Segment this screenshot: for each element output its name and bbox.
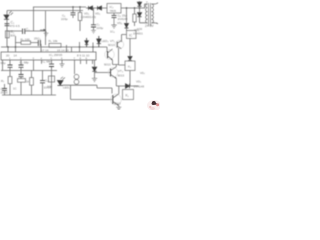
svg-text:68p: 68p: [1, 61, 6, 65]
svg-text:C₁₀: C₁₀: [45, 79, 50, 83]
stub x78: [79, 42, 81, 52]
relay contact box K1a: [125, 61, 135, 71]
ground G1: [44, 31, 49, 36]
IC2 output cap stub: [113, 13, 115, 15]
bottom right supply wire: [116, 85, 138, 87]
bus wire y70.5: [1, 70, 57, 72]
branch x21 lower: [20, 71, 22, 79]
svg-text:15 14 13: 15 14 13: [57, 49, 69, 53]
branch x10 lower resistor: [9, 71, 11, 96]
svg-text:K₁: K₁: [128, 65, 131, 69]
transistor VT1: [115, 40, 123, 48]
wire K1a down: [129, 71, 131, 87]
diode mid low: [92, 67, 96, 71]
capacitor C9 plates: [49, 64, 54, 66]
wire left column x7: [6, 11, 8, 48]
connector circles: [74, 74, 79, 79]
text labels: [1, 1, 155, 106]
resistor R2: [21, 41, 31, 44]
cap C7 branch: [93, 8, 95, 30]
VT4 emitter ground: [116, 105, 121, 110]
capacitor C7 plates: [91, 25, 96, 27]
watermark logo red: [147, 100, 161, 111]
wire diode chain: [139, 1, 141, 23]
diode VD1: [89, 6, 93, 10]
diode VD7: [126, 84, 130, 88]
wire top rail upper: [33, 7, 145, 8]
diode VD6: [125, 24, 129, 29]
capacitor C8 plates: [112, 15, 117, 17]
transformer right winding: [152, 4, 154, 23]
wire LED bottom down: [71, 85, 113, 99]
svg-text:10k: 10k: [47, 85, 52, 89]
capacitor C5 plates: [19, 65, 24, 67]
diode VD3: [137, 2, 141, 6]
mains arrows: [155, 3, 158, 24]
junction dots: [7, 6, 140, 48]
capacitor C6 plates: [71, 13, 76, 15]
cap C5e left bottom: [4, 84, 6, 95]
svg-text:9013: 9013: [108, 43, 115, 47]
bottom rail y95: [2, 94, 56, 96]
stub x93 up: [92, 43, 94, 53]
diode small x86: [85, 38, 89, 47]
transformer left winding: [146, 4, 148, 23]
ground G3: [111, 18, 116, 28]
svg-text:R₅ 10k: R₅ 10k: [49, 39, 59, 43]
ground G2: [91, 30, 96, 33]
IC1 big box: [1, 52, 96, 60]
svg-text:LED₂: LED₂: [102, 39, 110, 43]
svg-text:2×-9V: 2×-9V: [145, 24, 154, 28]
wire vertical x15: [15, 36, 17, 52]
transistor VT2 mid: [106, 47, 108, 52]
arrows at receiver: [9, 11, 13, 15]
LED1 arrows: [61, 77, 66, 80]
cap C6 stub: [72, 7, 74, 18]
box IC3: [127, 31, 137, 39]
svg-text:17 16: 17 16: [41, 49, 49, 53]
svg-text:300: 300: [10, 34, 15, 38]
diode VD in relay chain: [128, 57, 132, 61]
wire vertical x45: [45, 11, 47, 45]
svg-text:VD₇: VD₇: [136, 80, 141, 84]
stub pin20: [7, 47, 9, 52]
transformer connections: [140, 4, 156, 23]
resistor R5: [49, 43, 61, 47]
svg-text:R₇: R₇: [1, 79, 4, 83]
svg-text:470·4.5: 470·4.5: [10, 24, 21, 28]
svg-text:VD₂: VD₂: [95, 12, 101, 16]
wire to K1a: [129, 60, 131, 63]
svg-text:220μ: 220μ: [61, 17, 68, 21]
svg-text:1C: 1C: [13, 87, 17, 91]
svg-text:25/16: 25/16: [1, 91, 8, 95]
capacitor C1: [5, 24, 10, 26]
svg-text:14: 14: [14, 54, 18, 58]
photodiode D receiver: [4, 15, 9, 19]
wire mic branch y31: [7, 30, 46, 32]
arrowhead: [44, 29, 47, 31]
svg-text:C₄ 68p: C₄ 68p: [20, 61, 30, 65]
capacitor C4 plates: [8, 65, 13, 67]
svg-text:VT₃: VT₃: [118, 69, 124, 73]
transistor VT3: [108, 68, 118, 78]
svg-text:1C₉: 1C₉: [110, 30, 115, 34]
transformer T primary core: [149, 3, 151, 26]
wire down from IC3: [129, 39, 131, 57]
branch x31 resistor: [31, 71, 33, 96]
resistor R1: [5, 31, 9, 38]
VT4 collector up: [118, 86, 120, 94]
wire vertical x41: [40, 44, 42, 52]
capacitor C2: [23, 29, 25, 35]
wire R2 row: [16, 42, 39, 44]
wire right column x126: [126, 8, 128, 23]
svg-text:K₁: K₁: [126, 94, 129, 98]
ground G5: [92, 78, 97, 81]
wire top rail lower: [7, 10, 83, 12]
svg-text:9013: 9013: [118, 74, 125, 78]
svg-text:VD₆: VD₆: [117, 21, 123, 25]
stub x66: [66, 45, 68, 52]
box on x51 branch: [48, 76, 54, 82]
branch x42 cap: [42, 71, 44, 96]
relay coil box K1: [123, 90, 134, 100]
svg-text:VD₇: VD₇: [140, 71, 145, 75]
svg-text:LED₁: LED₁: [63, 86, 70, 90]
wire right column x134 resistor: [134, 8, 136, 26]
svg-text:9013: 9013: [104, 63, 111, 67]
wire arrow into gnd branch: [40, 29, 46, 31]
resistor R4 vertical: [79, 7, 81, 31]
diode VD2: [98, 6, 102, 10]
main bus wire y47: [1, 46, 107, 48]
stub x71: [71, 47, 73, 52]
diode chain wires: [94, 60, 96, 78]
diode VD8: [97, 36, 101, 47]
IC1 bottom pin stubs: [3, 60, 93, 95]
wire vertical join x33: [33, 7, 35, 31]
ground G4: [60, 64, 65, 67]
diode VD4: [137, 13, 141, 17]
wire LED top to right: [63, 85, 112, 93]
svg-text:9012: 9012: [114, 102, 121, 106]
IC2 regulator box: [107, 4, 121, 14]
svg-text:7805: 7805: [110, 9, 117, 13]
svg-text:1N4001: 1N4001: [133, 32, 143, 36]
box IC3 left pin: [119, 35, 127, 66]
LED1: [58, 81, 64, 86]
svg-text:(1N4001×3): (1N4001×3): [81, 15, 96, 19]
svg-text:1N4148: 1N4148: [134, 85, 145, 89]
svg-text:220μ: 220μ: [97, 26, 104, 30]
wire to box IC3: [126, 28, 128, 31]
VT3 base wire: [95, 72, 111, 74]
svg-text:T: T: [146, 1, 148, 5]
transistor VT4: [111, 94, 122, 105]
svg-text:C₆ 68p: C₆ 68p: [42, 60, 52, 64]
capacitor C3 polarized: [38, 40, 40, 46]
svg-text:1k: 1k: [26, 80, 30, 84]
svg-text:R₂ 100: R₂ 100: [21, 38, 31, 42]
svg-text:25C₃: 25C₃: [34, 37, 42, 41]
